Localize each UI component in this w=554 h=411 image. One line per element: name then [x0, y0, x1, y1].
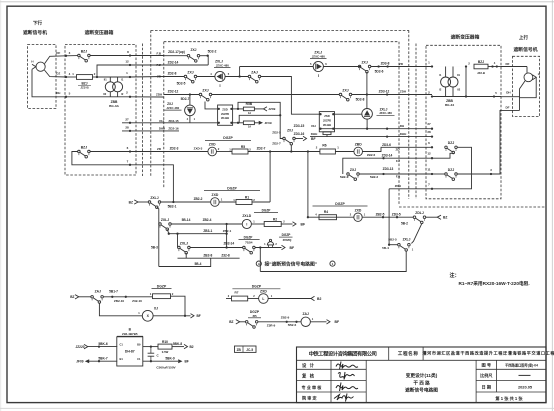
branch wire arrow [295, 138, 303, 140]
svg-text:ZXLJ: ZXLJ [180, 241, 188, 245]
svg-text:院 审 定: 院 审 定 [302, 395, 317, 401]
electronic unit ZSD (left) [218, 105, 233, 125]
wire resistor out [93, 76, 98, 78]
resistor R7 [232, 296, 248, 301]
svg-text:1A: 1A [248, 111, 251, 115]
signature 1 [336, 362, 358, 370]
contact ZB (bm2) [245, 321, 258, 329]
wire ZD segment3 [225, 76, 248, 78]
wire F.B after contact [200, 55, 208, 57]
svg-text:DGZP: DGZP [282, 233, 292, 237]
svg-text:5BK-8: 5BK-8 [173, 342, 182, 346]
svg-text:JZ220: JZ220 [75, 345, 84, 349]
svg-text:12: 12 [125, 59, 129, 63]
wire R5B out [254, 108, 263, 110]
wire bm1 seg [248, 298, 259, 300]
svg-text:ZD2-16: ZD2-16 [168, 127, 179, 131]
DZJ2 out up [457, 110, 519, 174]
title v sig cols [330, 360, 332, 402]
svg-text:ZDH: ZDH [400, 90, 406, 94]
terminal 1 [129, 76, 131, 78]
svg-text:ZD-BB: ZD-BB [221, 116, 229, 120]
wire row222 seg2 [251, 223, 264, 225]
svg-text:灌河市湖汇区盐道干西路改造提升工程迂灌海铁路平交道口工程: 灌河市湖汇区盐道干西路改造提升工程迂灌海铁路平交道口工程 [422, 349, 554, 355]
svg-text:11: 11 [427, 168, 431, 172]
svg-text:ZXLJ: ZXLJ [161, 218, 169, 222]
resistor R4 [319, 210, 337, 220]
resistor R5A [243, 121, 254, 125]
svg-text:BF: BF [290, 246, 295, 250]
arrow JF09 [85, 359, 89, 363]
resistor R5 [229, 145, 251, 154]
svg-text:上行: 上行 [519, 34, 529, 41]
svg-text:ZAJ: ZAJ [302, 312, 309, 316]
svg-text:专 业 审 核: 专 业 审 核 [302, 384, 323, 390]
unit2 bottom tab [323, 132, 331, 135]
svg-text:日 期: 日 期 [482, 383, 492, 390]
arrow JZ220 [84, 344, 88, 348]
blade drop row246 [185, 253, 187, 258]
vertical x307.9 down [307, 152, 309, 218]
svg-text:BF: BF [301, 222, 306, 226]
wire from above x172 [164, 165, 174, 202]
svg-text:2020.05: 2020.05 [518, 385, 533, 390]
terminal 2 [129, 96, 131, 98]
signature 2 [338, 372, 355, 380]
wire jf09 [89, 360, 117, 362]
wire ZD up-jog [239, 67, 241, 77]
svg-text:DHH: DHH [311, 132, 318, 136]
terminal 11 right [431, 173, 433, 175]
svg-text:JZXC-480: JZXC-480 [379, 111, 392, 115]
svg-text:JZ2-B: JZ2-B [477, 71, 485, 75]
right signal box dashed [513, 56, 540, 116]
wire row217 [308, 216, 354, 218]
svg-text:BZ: BZ [229, 320, 233, 324]
wire BZ row seg4 [252, 201, 270, 203]
wire DH row right [319, 128, 432, 130]
svg-text:JZ2-B: JZ2-B [80, 85, 89, 89]
right transformer box dashed [426, 45, 501, 199]
svg-text:ZXLJ: ZXLJ [150, 196, 158, 200]
svg-text:干西路道口图号(变)-04: 干西路道口图号(变)-04 [505, 362, 538, 367]
branch blade drop [290, 145, 292, 152]
svg-text:遮断信号机: 遮断信号机 [23, 29, 47, 36]
relay ZXJ JZXC-480 (C) [185, 105, 196, 116]
svg-text:5B1-7: 5B1-7 [109, 290, 118, 294]
svg-text:C1: C1 [137, 357, 141, 361]
wire ZDH low row [389, 188, 432, 190]
resistor R10 [158, 340, 172, 349]
relay ZXLJ JZXC-480 (D) [362, 109, 373, 120]
wire bl seg1 [79, 296, 91, 298]
arrow BF branch [303, 136, 316, 141]
pin I2 down [117, 92, 119, 97]
wire ZDH segment1 [164, 94, 200, 96]
wire t4 to resistor [66, 76, 77, 78]
svg-text:BG-34: BG-34 [445, 103, 454, 107]
wire BZ seg [138, 201, 148, 203]
resistor BZJ right [474, 60, 488, 69]
vertical to row246 [177, 234, 179, 248]
svg-text:5D2-6: 5D2-6 [375, 70, 384, 74]
svg-text:ZDH: ZDH [395, 184, 401, 188]
blade diag to ZB3-1 [167, 229, 169, 233]
svg-text:F.Z: F.Z [396, 159, 400, 163]
transformer ZBB (right) [441, 77, 451, 87]
svg-text:DGZP: DGZP [335, 202, 345, 206]
svg-text:DZJ: DZJ [448, 141, 455, 145]
relay ZBD2 [354, 209, 362, 222]
svg-text:JC-5: JC-5 [246, 348, 253, 352]
terminal 27 [129, 122, 131, 124]
svg-text:ZDH: ZDH [156, 93, 162, 97]
contact ZXJ (ZD row) [177, 70, 197, 85]
svg-text:5D2-5: 5D2-5 [177, 82, 186, 86]
svg-text:5B2-6: 5B2-6 [288, 323, 297, 327]
arrow JF09 [259, 121, 263, 125]
svg-text:JSZPD: JSZPD [221, 112, 229, 116]
relay ZXD (BZ row) [211, 193, 220, 206]
resistor Z.BQ [150, 292, 174, 298]
head loop right [520, 77, 537, 97]
svg-text:ZXJ: ZXJ [190, 48, 196, 52]
contact DZJ (lower) [445, 168, 458, 181]
wire bl seg2 [103, 296, 152, 298]
wire row1 to cable [130, 55, 164, 57]
wire y66 run3 [371, 66, 432, 68]
relay ZBD right [354, 142, 363, 155]
svg-text:JSZPD: JSZPD [323, 118, 331, 122]
wire out top2 [172, 346, 184, 348]
blade drop to XJ row [99, 303, 142, 316]
svg-text:BF: BF [185, 359, 189, 363]
wire bm2 seg [258, 321, 301, 323]
resistor R2 [264, 217, 281, 226]
svg-text:遮断变压器箱: 遮断变压器箱 [85, 29, 114, 36]
wire y66 run2 [324, 66, 361, 68]
wire bm1 pre [226, 298, 232, 300]
svg-text:JZXC-480: JZXC-480 [166, 106, 179, 110]
resistor R5B [243, 102, 254, 111]
svg-text:5BK-9: 5BK-9 [165, 356, 174, 360]
wire DHH stub [122, 130, 179, 132]
signature 3 [336, 383, 358, 392]
svg-text:设: 设 [302, 362, 307, 369]
central box dashed edges [163, 42, 165, 188]
svg-text:BF: BF [197, 314, 201, 318]
svg-text:F.Z: F.Z [157, 63, 161, 67]
vertical x389 down [388, 189, 390, 245]
wire ZD segment2 [197, 76, 215, 78]
terminal 12 [129, 64, 131, 66]
svg-text:下行: 下行 [33, 19, 43, 26]
svg-text:ZXJ: ZXJ [342, 88, 348, 92]
arrow BF row222 [293, 222, 306, 227]
wire y66 out [488, 66, 501, 68]
rtrans pin down wire [432, 96, 501, 98]
terminal 8 [129, 54, 131, 56]
contact 71BA (row246) [243, 246, 256, 254]
svg-text:遮断变压器箱: 遮断变压器箱 [451, 33, 480, 40]
unit2 pin dots [319, 113, 321, 115]
svg-text:DGZP: DGZP [262, 208, 272, 212]
pin II2 down [109, 92, 111, 97]
svg-text:ZDLJ: ZDLJ [415, 211, 424, 215]
svg-text:R1: R1 [245, 195, 249, 199]
wire jz220 [88, 346, 117, 348]
arrow B2 out [184, 344, 188, 348]
terminal 3 [65, 55, 67, 57]
wire row244 [389, 244, 398, 246]
svg-text:JF09: JF09 [265, 121, 272, 125]
svg-text:12: 12 [427, 152, 431, 156]
left drop vertical [158, 224, 160, 267]
terminal 5 [65, 96, 67, 98]
wire row217 seg2 [362, 216, 413, 218]
svg-text:Z92-4B7B5: Z92-4B7B5 [122, 332, 138, 336]
svg-text:R4: R4 [324, 210, 328, 214]
wire row258 [178, 257, 240, 259]
terminal 6 right [431, 146, 433, 148]
bottom loop [159, 258, 211, 266]
svg-text:ZAJ: ZAJ [251, 70, 258, 74]
wire DF2 vertical [519, 98, 521, 111]
svg-text:ZB2-4: ZB2-4 [203, 218, 212, 222]
svg-text:ZD3-14: ZD3-14 [382, 154, 393, 158]
svg-text:5B-2: 5B-2 [401, 221, 408, 225]
resistor R1 [233, 195, 255, 204]
svg-text:ZD3-6: ZD3-6 [382, 143, 391, 147]
terminal 28 [129, 130, 131, 132]
contact ZXJ (row178) [347, 168, 360, 181]
svg-text:遮断信号电路图: 遮断信号电路图 [405, 386, 438, 393]
wire out bottom [143, 360, 178, 362]
svg-text:DGZP: DGZP [157, 284, 167, 288]
svg-text:遮断信号机: 遮断信号机 [514, 46, 538, 53]
svg-text:5B-14: 5B-14 [182, 218, 191, 222]
svg-text:ZB2-1: ZB2-1 [223, 229, 232, 233]
wire row246 seg2 [255, 247, 281, 249]
wire to terminal 1 [97, 76, 130, 78]
svg-text:ZSD: ZSD [222, 107, 228, 111]
wire lamp1 [66, 55, 78, 57]
svg-text:ZXJ: ZXJ [361, 60, 367, 64]
svg-text:Z32-8: Z32-8 [221, 253, 230, 257]
svg-text:ZXLJ: ZXLJ [403, 237, 411, 241]
svg-text:DF: DF [506, 62, 510, 66]
svg-text:5BK-6: 5BK-6 [98, 342, 107, 346]
wire bl seg3 [171, 296, 186, 316]
wire low horizontal [260, 251, 406, 271]
svg-text:ZB2-8: ZB2-8 [203, 253, 212, 257]
svg-text:DHH: DHH [400, 132, 407, 136]
unit right wire top [233, 108, 244, 110]
svg-text:ZD3-5: ZD3-5 [392, 212, 401, 216]
arrow BF row246 [282, 245, 295, 250]
svg-text:ZXD: ZXD [212, 193, 219, 197]
svg-text:DGZP: DGZP [252, 285, 262, 289]
note circled A [256, 261, 261, 266]
wire R5A out [254, 122, 258, 124]
node at 97,77 [96, 76, 98, 78]
wire row 1 to cable [130, 76, 164, 79]
wire BZ row seg2 [161, 201, 210, 203]
wire row5 seg3 [248, 151, 320, 153]
svg-text:核: 核 [310, 373, 315, 380]
svg-text:XJ: XJ [154, 306, 158, 310]
svg-text:比例尺: 比例尺 [480, 372, 493, 378]
svg-text:5BK-7: 5BK-7 [98, 356, 107, 360]
relayC top pin [189, 95, 191, 106]
svg-text:ZXJ: ZXJ [350, 168, 356, 172]
contact drop to row2 [157, 207, 159, 224]
left transformer box dashed [65, 45, 136, 176]
svg-text:DZJ: DZJ [448, 168, 455, 172]
rtrans bypass vertical [465, 67, 467, 97]
svg-text:接"遮断预告信号电路图": 接"遮断预告信号电路图" [265, 260, 318, 267]
contact ZXLJ (row244) [398, 243, 411, 251]
resistor BZJ JZ2-B [77, 75, 93, 80]
terminal 1 rbox [431, 65, 433, 67]
unit right pin dots [230, 108, 232, 110]
terminal 12 right [431, 157, 433, 159]
svg-text:H: H [31, 59, 33, 63]
unit left pin dots [218, 108, 220, 110]
svg-text:ZAJ: ZAJ [95, 290, 101, 294]
vertical bus x270 [269, 152, 271, 203]
terminal 7 right [431, 188, 433, 190]
rtrans pin1 up [445, 67, 447, 78]
terminal 4 [65, 76, 67, 78]
svg-text:JZXC-480: JZXC-480 [216, 63, 230, 67]
svg-text:第 1 张 共 1 张: 第 1 张 共 1 张 [495, 395, 523, 402]
wire row5 seg4 [335, 151, 354, 153]
wire row178 seg2 [360, 173, 433, 175]
cable run dashed (right line) [415, 44, 417, 200]
svg-text:ZD3-12: ZD3-12 [379, 89, 390, 93]
wire row5 seg2 [217, 151, 233, 153]
wire ZDH segment2 [212, 94, 339, 96]
svg-text:DH: DH [56, 91, 60, 95]
svg-text:JZXC-480: JZXC-480 [312, 54, 326, 58]
legend box ZB JC-5 [235, 346, 257, 352]
rtrans pin2 up [452, 67, 454, 78]
DGZP label over ZXD [205, 136, 251, 140]
svg-text:L: L [262, 297, 264, 301]
svg-text:DGZP: DGZP [227, 186, 237, 190]
svg-text:ZXJ: ZXJ [287, 129, 293, 133]
relay ZXD (row5) [208, 142, 217, 155]
svg-text:ZD2-5: ZD2-5 [272, 131, 281, 135]
svg-text:5B2-5: 5B2-5 [388, 237, 397, 241]
wire F.Z [164, 64, 209, 66]
unit2 right wire [335, 113, 362, 115]
svg-text:5D2-7: 5D2-7 [181, 97, 190, 101]
svg-text:28: 28 [125, 125, 129, 129]
signal head H (left) [36, 62, 45, 71]
svg-text:ZD2-17(up): ZD2-17(up) [168, 50, 185, 54]
wire DH entry [501, 96, 520, 98]
svg-text:计: 计 [310, 362, 315, 369]
svg-text:ZB3-1: ZB3-1 [203, 229, 212, 233]
contact BZJ (top) [78, 49, 91, 62]
svg-text:BG-3A: BG-3A [109, 104, 119, 108]
contact blade drop wire [205, 102, 218, 109]
svg-text:ZXLD: ZXLD [242, 214, 251, 218]
wire DF entry [501, 66, 527, 68]
svg-text:DZ: DZ [56, 71, 60, 75]
wire ZB3-1 [169, 233, 227, 235]
svg-text:C500uF/150V: C500uF/150V [156, 366, 176, 370]
wire DHH row right [310, 136, 432, 138]
wire bottom row trans [66, 96, 130, 98]
svg-text:ZB2-9: ZB2-9 [281, 316, 290, 320]
wire row5 seg1 [164, 151, 209, 153]
wire jog up to 12 [97, 65, 130, 77]
resistor R6 [320, 143, 336, 154]
cable run dashed (left line) [142, 44, 144, 177]
relayD bottom pin [366, 119, 368, 129]
contact BZJ (bottom) [78, 145, 91, 158]
svg-text:ZSD: ZSD [324, 114, 330, 118]
DGZP label bm1 [232, 285, 280, 289]
relay ZXLJ JZXC-480 (B) [313, 61, 323, 71]
svg-text:工程名称: 工程名称 [398, 350, 419, 357]
contact ZXJ (ZDH second) [339, 88, 352, 101]
wire row5 jog to t6 [363, 147, 433, 151]
wire out top [143, 346, 158, 348]
svg-text:ZD2-7: ZD2-7 [272, 141, 281, 145]
terminal 2 rbox [431, 95, 433, 97]
svg-text:DH: DH [311, 124, 315, 128]
arrow B2 bm [311, 296, 315, 300]
svg-text:ZXJ: ZXJ [187, 70, 193, 74]
svg-text:ZXD: ZXD [209, 142, 216, 146]
vertical ZB2-1 [226, 224, 228, 248]
contact ZXJ (F.B) [187, 54, 200, 62]
unit right wire bottom [233, 122, 244, 124]
wire BZ row seg3 [219, 201, 236, 203]
svg-text:B9: B9 [137, 342, 141, 346]
wire row 2 to cable [130, 96, 164, 98]
svg-text:B1: B1 [120, 357, 124, 361]
svg-text:1A: 1A [248, 125, 251, 129]
contact DZJ (upper) [445, 141, 458, 154]
wire ZD segment1 [164, 76, 185, 78]
wire 7 to cable [130, 164, 164, 166]
wire y66 run [240, 66, 314, 68]
svg-text:ZB2-6: ZB2-6 [367, 153, 376, 157]
svg-text:ZXD: ZXD [260, 290, 267, 294]
svg-text:R6: R6 [322, 143, 326, 147]
svg-text:DH: DH [506, 91, 510, 95]
relay ZXD (bm) [259, 290, 269, 304]
wire bm1 seg2 [268, 298, 311, 300]
relay ZXLD [242, 214, 252, 229]
DGZP label right2 [313, 202, 368, 206]
wire DH to unit [122, 122, 218, 124]
svg-text:图 号: 图 号 [482, 362, 492, 369]
svg-text:干 西 路: 干 西 路 [413, 379, 430, 386]
wire row222 seg3 [281, 223, 292, 225]
svg-text:ZB2-2: ZB2-2 [194, 197, 203, 201]
svg-text:0.5W: 0.5W [162, 350, 169, 354]
DGZP label BZ row [204, 186, 260, 190]
left signal machine dashed box [28, 45, 57, 109]
wire row222 [171, 223, 242, 225]
svg-text:R1~R7采用RX20-16W-T-220电阻.: R1~R7采用RX20-16W-T-220电阻. [459, 280, 530, 287]
